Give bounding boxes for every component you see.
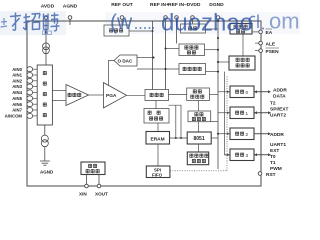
svg-text:AGND: AGND bbox=[63, 4, 78, 10]
svg-text:ALE: ALE bbox=[266, 42, 276, 48]
svg-text:EXT: EXT bbox=[270, 148, 279, 154]
svg-text:AIN7: AIN7 bbox=[12, 108, 22, 113]
svg-text:RST: RST bbox=[266, 172, 276, 178]
svg-text:O DAC: O DAC bbox=[118, 59, 133, 64]
svg-text:3: 3 bbox=[246, 153, 249, 158]
svg-text:REF OUT: REF OUT bbox=[111, 2, 132, 8]
svg-text:REF IN+: REF IN+ bbox=[150, 2, 169, 8]
svg-text:AIN1: AIN1 bbox=[12, 73, 22, 78]
svg-text:AGND: AGND bbox=[40, 169, 54, 174]
svg-text:DGND: DGND bbox=[209, 2, 224, 8]
svg-text:FIFO: FIFO bbox=[152, 172, 163, 177]
svg-text:AIN5: AIN5 bbox=[12, 96, 22, 101]
svg-text:AIN3: AIN3 bbox=[12, 84, 22, 89]
svg-text:T1: T1 bbox=[270, 160, 276, 166]
svg-text:REF IN−: REF IN− bbox=[168, 2, 187, 8]
svg-text:DATA: DATA bbox=[273, 94, 286, 100]
svg-text:PWM: PWM bbox=[270, 166, 282, 172]
svg-text:XOUT: XOUT bbox=[95, 192, 108, 197]
svg-text:0: 0 bbox=[246, 90, 249, 95]
svg-text:T2: T2 bbox=[270, 101, 276, 107]
svg-text:(w: (w bbox=[110, 11, 133, 34]
svg-text:om: om bbox=[269, 9, 300, 34]
svg-text:AIN4: AIN4 bbox=[12, 90, 22, 95]
svg-text:1: 1 bbox=[246, 111, 249, 116]
svg-text:AINCOM: AINCOM bbox=[5, 114, 23, 119]
svg-text:T0: T0 bbox=[270, 154, 276, 160]
svg-text:UART1: UART1 bbox=[270, 142, 286, 148]
svg-text:AIN0: AIN0 bbox=[12, 67, 22, 72]
svg-text:ERAM: ERAM bbox=[151, 136, 165, 142]
svg-text:duozhao: duozhao bbox=[161, 10, 253, 37]
svg-text:DVDD: DVDD bbox=[187, 2, 201, 8]
svg-text:UART2: UART2 bbox=[270, 113, 286, 119]
svg-text:2: 2 bbox=[246, 132, 249, 137]
svg-text:8051: 8051 bbox=[194, 136, 205, 142]
svg-text:AIN6: AIN6 bbox=[12, 102, 22, 107]
svg-text:AVDD: AVDD bbox=[41, 4, 55, 10]
svg-text:ADDR: ADDR bbox=[273, 88, 287, 94]
svg-text:AIN2: AIN2 bbox=[12, 78, 22, 83]
svg-text:PSEN: PSEN bbox=[266, 49, 280, 55]
svg-text:XIN: XIN bbox=[79, 192, 87, 197]
svg-text:SPI/EXT: SPI/EXT bbox=[270, 107, 288, 113]
svg-text:PGA: PGA bbox=[106, 93, 117, 99]
svg-text:ADDR: ADDR bbox=[270, 132, 284, 138]
